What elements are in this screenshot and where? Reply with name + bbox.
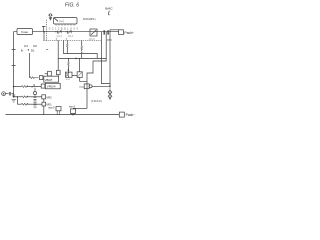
svg-text:(sec): (sec) [59,20,65,23]
svg-text:VRG/4: VRG/4 [47,85,56,89]
svg-text:twm0: twm0 [48,105,55,109]
svg-text:MJCHP1): MJCHP1) [83,17,96,21]
svg-text:Q2 d: Q2 d [68,35,74,38]
svg-text:Q3 dl: Q3 dl [89,38,95,41]
svg-text:B: B [3,92,5,96]
svg-text:twm1: twm1 [69,105,76,109]
svg-text:D1: D1 [31,48,35,52]
svg-text:B/AC: B/AC [105,7,113,11]
svg-text:(0.8OH2): (0.8OH2) [91,99,102,103]
svg-text:Pack+: Pack+ [124,31,134,35]
svg-text:D1: D1 [24,44,28,48]
svg-text:D2: D2 [33,44,37,48]
svg-text:Q1 d: Q1 d [57,35,63,38]
svg-text:VBAT: VBAT [45,78,53,82]
svg-text:Pack−: Pack− [126,113,136,117]
svg-text:HN1: HN1 [79,87,84,89]
svg-text:FIG. 6: FIG. 6 [65,2,79,8]
svg-text:SC12BDLG0V: SC12BDLG0V [49,27,79,31]
svg-text:VR2: VR2 [46,95,52,99]
svg-text:Fuse: Fuse [21,30,28,34]
